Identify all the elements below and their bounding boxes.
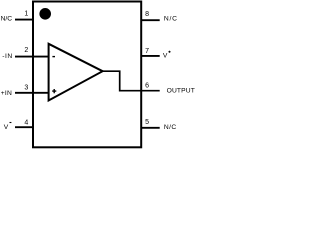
- svg-text:6: 6: [145, 83, 149, 90]
- superscript plus of V+: [168, 51, 170, 53]
- wire pin 6 output routing: [103, 71, 160, 91]
- svg-text:-IN: -IN: [2, 53, 13, 60]
- svg-text:4: 4: [24, 120, 28, 127]
- svg-text:8: 8: [145, 11, 149, 18]
- wire pin 3: [15, 92, 49, 94]
- wire pin 7: [141, 55, 160, 57]
- IC body U1: [33, 2, 141, 148]
- wire pin 8: [141, 19, 160, 21]
- superscript minus of V-: [10, 122, 12, 124]
- svg-text:N/C: N/C: [164, 124, 177, 131]
- svg-text:7: 7: [145, 48, 149, 55]
- svg-text:3: 3: [24, 84, 28, 91]
- wire pin 2: [15, 56, 49, 58]
- svg-text:V: V: [4, 124, 9, 131]
- svg-text:2: 2: [24, 47, 28, 54]
- pin 1 indicator dot: [39, 8, 51, 20]
- wire pin 4: [15, 126, 32, 128]
- svg-text:V: V: [163, 53, 168, 60]
- minus input mark: [52, 56, 55, 58]
- wire pin 5: [141, 127, 160, 129]
- svg-text:N/C: N/C: [164, 16, 178, 23]
- op-amp triangle: [49, 44, 103, 101]
- svg-text:+IN: +IN: [1, 90, 12, 97]
- svg-text:N/C: N/C: [1, 16, 13, 23]
- wire pin 1: [15, 19, 32, 21]
- svg-text:5: 5: [145, 119, 149, 126]
- plus input mark: [52, 89, 56, 93]
- svg-text:1: 1: [24, 10, 28, 17]
- svg-text:OUTPUT: OUTPUT: [167, 87, 195, 94]
